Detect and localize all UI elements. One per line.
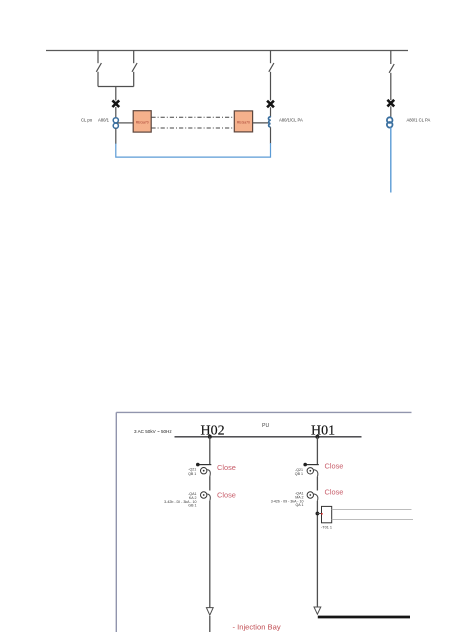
closed contact X3 bbox=[387, 100, 394, 107]
svg-text:- Injection Bay: - Injection Bay bbox=[233, 622, 281, 631]
feeder H02 tail below arrow bbox=[209, 616, 211, 632]
feeder H01 wire upper bbox=[316, 437, 318, 465]
disconnect switch S3 (right branch) bbox=[389, 51, 394, 101]
breaker Q21 (H01) pivot dot bbox=[303, 463, 307, 467]
dash-dot link upper between REG1 and REG2 bbox=[151, 116, 234, 118]
svg-text:REGa70: REGa70 bbox=[136, 120, 149, 124]
disconnect switch S1a (left pair, left leg) bbox=[96, 51, 101, 87]
svg-text:Close: Close bbox=[217, 463, 236, 472]
svg-text:GB 1: GB 1 bbox=[188, 504, 196, 508]
blue wire drop branch 3 bbox=[390, 128, 392, 193]
feeder H02 wire lower bbox=[209, 501, 211, 608]
svg-text:Close: Close bbox=[217, 490, 236, 499]
wire X1 to coil bbox=[115, 107, 117, 117]
svg-text:A80/1 CL PA: A80/1 CL PA bbox=[407, 117, 431, 122]
feeder H01 wire lower bbox=[316, 501, 318, 608]
wire junction to transformer T01 bbox=[317, 513, 321, 515]
frame top edge bbox=[116, 411, 411, 413]
wire T01 output lower bbox=[332, 519, 413, 521]
motor drive M2 (H01) bbox=[307, 492, 313, 498]
closed contact X1 bbox=[112, 100, 119, 107]
svg-text:CL po: CL po bbox=[81, 117, 93, 122]
svg-text:QB 1: QB 1 bbox=[188, 472, 196, 476]
CT coil W3 bbox=[387, 117, 393, 127]
wire T01 output upper bbox=[332, 508, 412, 510]
closed contact X2 bbox=[267, 101, 274, 108]
transformer box T01 bbox=[321, 506, 332, 522]
feeder H02 wire mid bbox=[209, 477, 211, 491]
svg-text:A80/1: A80/1 bbox=[98, 117, 110, 122]
wire box REG2 to coil W2 bbox=[253, 122, 269, 124]
wire below coil W1 (dark) bbox=[115, 128, 117, 144]
wire tie bar under switch pair bbox=[98, 86, 134, 88]
svg-text:PU: PU bbox=[262, 423, 269, 429]
svg-text:Close: Close bbox=[325, 488, 344, 497]
svg-text:Close: Close bbox=[325, 461, 344, 470]
arrow feeder H02 bbox=[206, 608, 213, 616]
motor drive M1 (H02) bbox=[201, 468, 207, 474]
wire X3 to coil W3 bbox=[390, 106, 392, 117]
node H01 junction bbox=[315, 435, 319, 439]
node T01 junction bbox=[316, 512, 320, 516]
arrow feeder H01 bbox=[314, 607, 321, 614]
node H02 junction bbox=[208, 435, 212, 439]
motor drive M1 (H01) bbox=[307, 468, 313, 474]
svg-text:QB 1: QB 1 bbox=[295, 472, 303, 476]
breaker Q21 (H02) pivot dot bbox=[196, 463, 200, 467]
blade arc Q21 (H01) bbox=[314, 470, 318, 477]
svg-text:3 AC 50kV ~ 50Hz: 3 AC 50kV ~ 50Hz bbox=[134, 429, 172, 434]
wire stem branch 1 bbox=[115, 87, 117, 101]
disconnect switch S1b (left pair, right leg) bbox=[132, 51, 137, 87]
svg-text:-T01 1: -T01 1 bbox=[321, 526, 332, 530]
motor drive M2 (H02) bbox=[201, 492, 207, 498]
wire coil W1 to box REG1 bbox=[118, 122, 134, 124]
frame left edge bbox=[115, 412, 117, 632]
svg-text:A80/1/CL PA: A80/1/CL PA bbox=[279, 117, 303, 122]
feeder H02 wire upper bbox=[209, 437, 211, 465]
blade arc QA1 (H02) bbox=[207, 494, 210, 501]
blue wire U-link (pilot wire loop) bbox=[116, 143, 271, 157]
relay box REG1 bbox=[133, 111, 151, 132]
feeder H01 wire mid bbox=[316, 477, 318, 491]
CT coil W2 (arcs on left of line) bbox=[268, 117, 270, 127]
svg-text:QA 1: QA 1 bbox=[296, 503, 304, 507]
dash-dot link lower between REG1 and REG2 bbox=[151, 127, 234, 129]
disconnect switch S2 (middle branch) bbox=[269, 51, 274, 101]
breaker Q21 (H02) tee bar bbox=[198, 464, 212, 466]
ground bus thick bar bbox=[318, 616, 410, 619]
wire below coil W2 (dark) bbox=[270, 127, 272, 143]
bus H (lower diagram busbar) bbox=[175, 436, 362, 438]
breaker Q21 (H01) tee bar bbox=[305, 464, 319, 466]
blade arc Q21 (H02) bbox=[207, 470, 210, 477]
CT coil W1 bbox=[113, 118, 118, 129]
svg-text:REGa70: REGa70 bbox=[237, 120, 250, 124]
relay box REG2 bbox=[234, 111, 252, 132]
wire X2 to coil W2 bbox=[270, 107, 272, 117]
blade arc QA1 (H01) bbox=[314, 494, 318, 501]
bus B1 (top horizontal bus) bbox=[46, 50, 408, 52]
